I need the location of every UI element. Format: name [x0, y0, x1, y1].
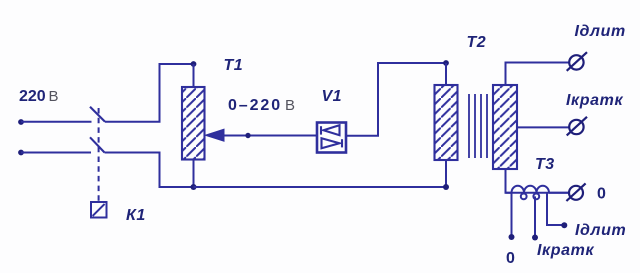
svg-text:Т1: Т1: [224, 57, 244, 74]
inductor T3: [506, 186, 570, 200]
svg-text:Ідлит: Ідлит: [575, 222, 626, 239]
transformer T2 core: [469, 94, 487, 158]
wiper arrow of T1: [205, 129, 224, 141]
wire T2 secondary bottom to T3: [506, 169, 512, 193]
wire T1 bottom terminal: [193, 160, 195, 188]
wire T2 secondary top to terminal: [506, 63, 569, 86]
relay K1: [91, 202, 107, 218]
autotransformer T1: [182, 87, 205, 160]
svg-text:Ідлит: Ідлит: [575, 23, 626, 40]
svg-text:К1: К1: [126, 207, 146, 224]
svg-text:Т2: Т2: [467, 34, 487, 51]
terminal Ikratk top: [567, 117, 587, 136]
switch blade bottom (K1 contact): [90, 137, 105, 152]
wire top after switch: [105, 64, 194, 122]
svg-text:0: 0: [597, 186, 606, 203]
wire T3 tap right: [547, 193, 562, 225]
transformer T2 secondary winding: [493, 85, 517, 169]
node tap right end: [561, 222, 567, 228]
svg-text:Т3: Т3: [535, 156, 555, 173]
wire bottom rail: [194, 186, 447, 188]
terminal Idlit top: [567, 52, 587, 71]
node T1 bottom junction: [191, 184, 197, 190]
wire wiper to V1: [224, 135, 317, 137]
switch blade top (K1 contact): [90, 107, 105, 122]
node T1 top junction: [191, 61, 197, 67]
wire dashed link to K1: [98, 108, 100, 202]
wire T1 top terminal: [193, 64, 195, 87]
svg-text:Ікратк: Ікратк: [537, 242, 594, 259]
wire T3 tap left: [511, 193, 513, 235]
rectifier V1: [317, 123, 346, 153]
wire T2 primary bottom terminal: [445, 160, 447, 187]
svg-text:Ікратк: Ікратк: [566, 92, 623, 109]
node T2 primary top junction: [443, 60, 449, 66]
svg-text:0–220: 0–220: [228, 97, 282, 114]
wire V1 to T2: [346, 63, 446, 136]
wire T2 primary top terminal: [445, 63, 447, 85]
svg-text:В: В: [285, 97, 295, 114]
wire top input: [21, 121, 92, 123]
node tap middle end: [532, 235, 538, 241]
wire T2 secondary mid tap: [517, 126, 569, 128]
node T2 primary bottom junction: [443, 184, 449, 190]
wire bottom input: [21, 152, 91, 154]
svg-text:V1: V1: [322, 88, 343, 105]
node input bottom terminal: [18, 150, 24, 156]
wire T3 to zero terminal: [549, 192, 569, 194]
transformer T2 primary winding: [435, 85, 458, 160]
node input top terminal: [18, 119, 24, 125]
wire T3 tap middle: [534, 196, 536, 235]
svg-text:0: 0: [506, 250, 515, 267]
svg-text:В: В: [49, 88, 59, 105]
terminal zero right: [566, 183, 585, 201]
svg-text:220: 220: [19, 88, 46, 105]
wire bottom after switch: [105, 153, 194, 188]
node wiper dot: [245, 133, 250, 138]
node tap left end: [509, 234, 515, 240]
